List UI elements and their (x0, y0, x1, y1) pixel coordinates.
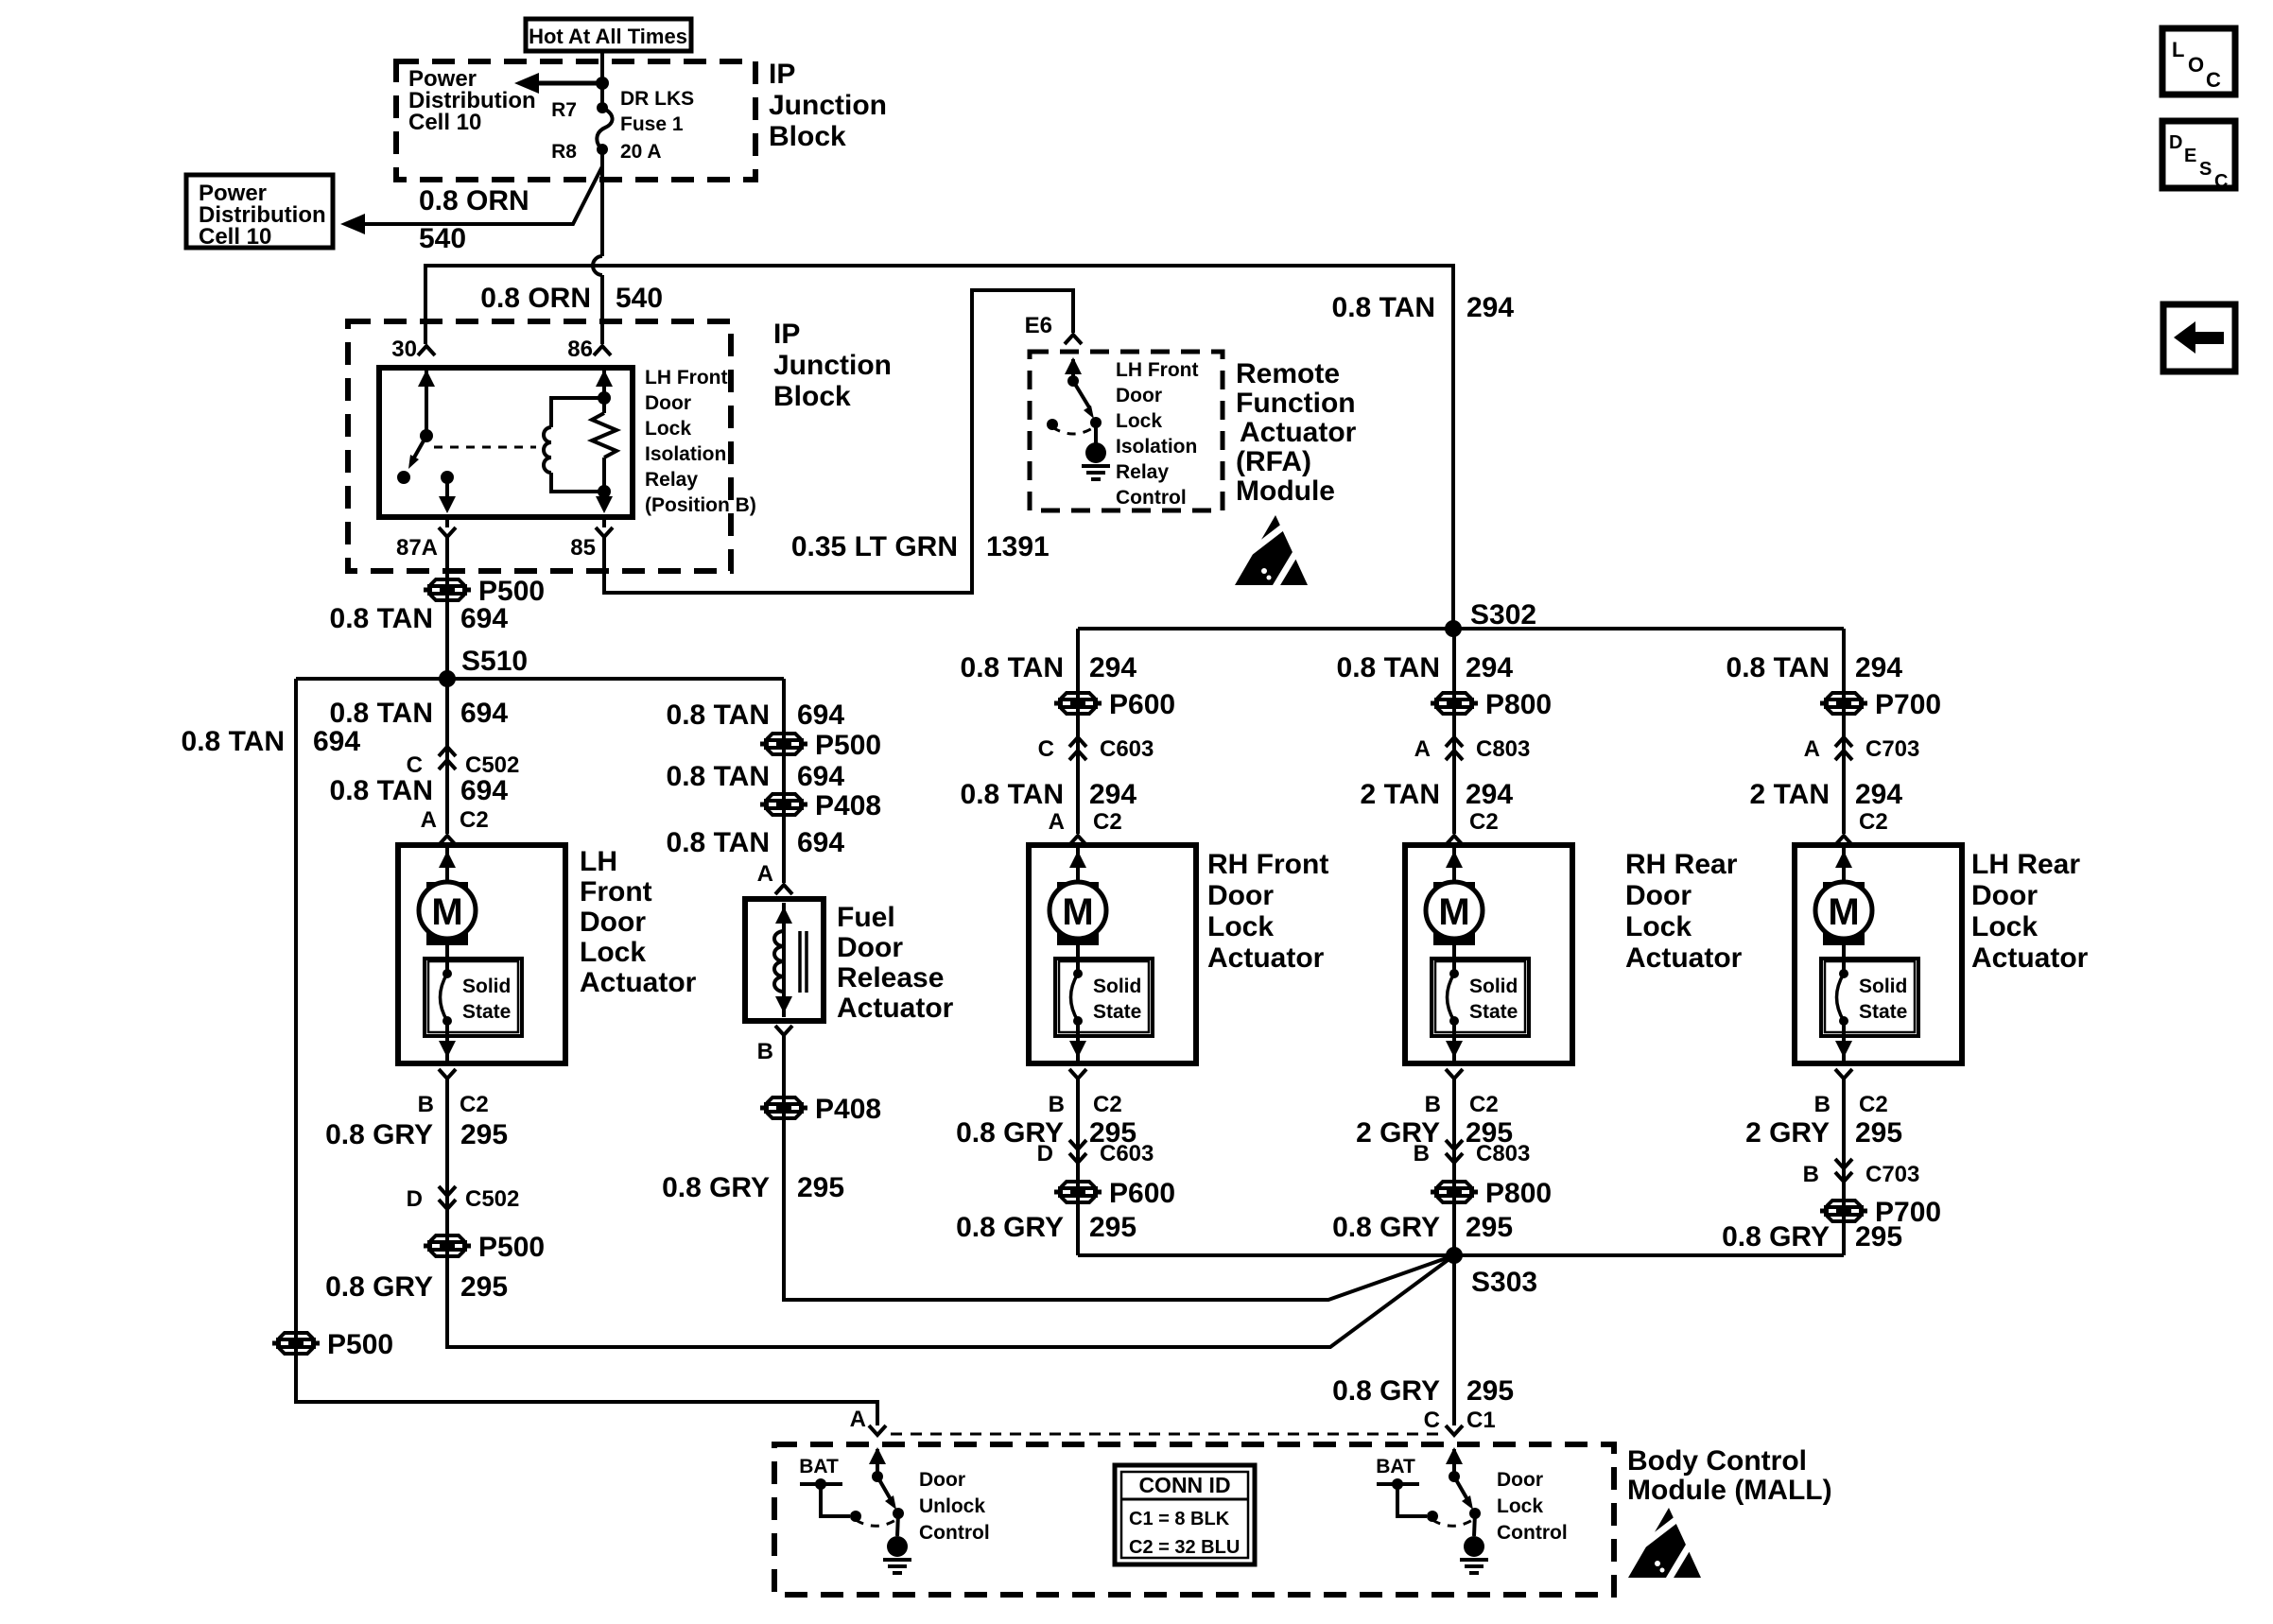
svg-text:P500: P500 (327, 1329, 393, 1360)
connector P700 (return) (1820, 1198, 1867, 1224)
svg-text:BAT: BAT (799, 1456, 839, 1477)
svg-text:Door: Door (1207, 880, 1274, 911)
svg-text:DR LKS: DR LKS (620, 88, 694, 110)
wire RH front return (1076, 1079, 1080, 1255)
relay switch blade (414, 436, 426, 458)
svg-text:C2: C2 (1859, 809, 1888, 835)
svg-text:D: D (407, 1186, 423, 1212)
svg-text:294: 294 (1466, 652, 1513, 683)
svg-text:S303: S303 (1471, 1267, 1537, 1298)
svg-text:Relay: Relay (645, 469, 698, 491)
svg-text:2 TAN: 2 TAN (1750, 779, 1830, 810)
svg-text:Actuator: Actuator (837, 993, 954, 1024)
svg-text:S302: S302 (1470, 599, 1536, 631)
wire relay 87A to S510 (445, 537, 449, 679)
RFA relay control switch (1071, 359, 1075, 381)
svg-text:LH Front: LH Front (645, 367, 727, 389)
svg-text:C502: C502 (465, 752, 519, 778)
connector C803 pin A (1446, 737, 1463, 760)
svg-text:R7: R7 (551, 99, 577, 121)
svg-text:Actuator: Actuator (1625, 942, 1743, 974)
svg-text:LH Front: LH Front (1116, 359, 1198, 381)
connector C703 pin A (1835, 737, 1852, 760)
connector P500 (BCM feed) (272, 1330, 320, 1356)
svg-text:0.8 TAN: 0.8 TAN (667, 761, 770, 792)
svg-text:Fuse 1: Fuse 1 (620, 113, 684, 135)
node S510 (439, 670, 456, 687)
svg-text:Block: Block (769, 121, 846, 152)
relay switch output contact (441, 471, 454, 484)
svg-text:Cell 10: Cell 10 (199, 224, 271, 250)
LH Rear Door Lock Actuator (1795, 845, 1962, 1063)
svg-text:Release: Release (837, 962, 944, 993)
svg-text:Junction: Junction (773, 350, 892, 381)
connector C502 pin D (439, 1186, 456, 1209)
svg-text:C: C (1038, 736, 1054, 762)
wire from Hot At All Times to fuse (600, 51, 604, 108)
svg-text:694: 694 (797, 700, 844, 731)
connector P500 (fuel feed) (760, 731, 807, 757)
wire 0.35 LT GRN 1391 from pin 85 to RFA E6 (604, 290, 1073, 593)
svg-text:C1 = 8 BLK: C1 = 8 BLK (1129, 1509, 1230, 1529)
node S303 (1446, 1247, 1463, 1264)
svg-text:C2: C2 (1859, 1092, 1888, 1117)
svg-text:295: 295 (1466, 1375, 1514, 1407)
svg-text:0.8 TAN: 0.8 TAN (330, 603, 433, 634)
pin B connector C2 (439, 1069, 456, 1079)
svg-text:B: B (1414, 1141, 1430, 1166)
wire RH rear return to S303 (1452, 1079, 1456, 1255)
svg-text:Control: Control (919, 1522, 990, 1544)
wire fuse output down to relay pin 86 (600, 149, 604, 256)
ESD symbol (RFA) (1235, 515, 1308, 590)
LOC legend box (2162, 28, 2235, 95)
svg-text:P500: P500 (815, 730, 881, 761)
connector P600 (feed) (1054, 690, 1102, 717)
svg-text:Fuel: Fuel (837, 902, 895, 933)
svg-text:O: O (2188, 53, 2204, 77)
svg-text:Actuator: Actuator (1207, 942, 1325, 974)
svg-text:C2: C2 (1469, 1092, 1499, 1117)
svg-text:87A: 87A (396, 535, 438, 561)
svg-text:294: 294 (1466, 292, 1514, 323)
connector P600 (return) (1054, 1179, 1102, 1205)
svg-text:694: 694 (460, 698, 508, 729)
svg-text:Module: Module (1236, 475, 1335, 507)
svg-text:RH Rear: RH Rear (1625, 849, 1738, 880)
svg-text:A: A (757, 861, 773, 887)
connector P500 (return) (424, 1233, 471, 1259)
dashed link blade to coil (434, 446, 536, 449)
svg-text:295: 295 (460, 1119, 508, 1150)
svg-text:C2: C2 (1093, 809, 1122, 835)
wire LH rear return to S303 (1842, 1079, 1846, 1255)
svg-text:Door: Door (1497, 1469, 1543, 1491)
connector P800 (feed) (1431, 690, 1478, 717)
svg-text:295: 295 (797, 1172, 844, 1203)
svg-text:C: C (407, 752, 423, 778)
svg-text:(RFA): (RFA) (1236, 446, 1311, 477)
svg-text:P800: P800 (1485, 1178, 1552, 1209)
svg-text:B: B (1803, 1162, 1819, 1187)
svg-text:Hot At All Times: Hot At All Times (529, 25, 687, 48)
svg-text:0.8 ORN: 0.8 ORN (419, 185, 529, 216)
ground (RFA switch) (1094, 423, 1098, 444)
Door Lock Control switch (1452, 1449, 1456, 1477)
Body Control Module (MALL) dashed box (774, 1444, 1614, 1595)
RH Front Door Lock Actuator (1029, 845, 1196, 1063)
svg-text:694: 694 (797, 761, 844, 792)
back arrow legend box (2163, 304, 2235, 371)
relay switch common (pin 30 side) (425, 368, 428, 436)
svg-text:P500: P500 (478, 1232, 545, 1263)
svg-text:0.8 GRY: 0.8 GRY (956, 1212, 1064, 1243)
svg-text:Control: Control (1497, 1522, 1568, 1544)
svg-text:P408: P408 (815, 790, 881, 821)
svg-text:Remote: Remote (1236, 358, 1340, 389)
svg-text:Control: Control (1116, 487, 1187, 509)
connector C502 pin C (439, 747, 456, 769)
svg-text:Junction: Junction (769, 90, 887, 121)
RH rear door lock feed wire (1452, 629, 1456, 834)
svg-text:Isolation: Isolation (1116, 436, 1197, 458)
svg-text:Actuator: Actuator (1240, 417, 1357, 448)
relay resistor (602, 368, 606, 413)
svg-text:A: A (1414, 736, 1431, 762)
LH front door lock feed wire (445, 679, 449, 834)
svg-text:A: A (850, 1407, 866, 1432)
svg-text:C: C (1424, 1408, 1440, 1433)
svg-text:Door: Door (1971, 880, 2038, 911)
relay coil branch (551, 398, 604, 427)
pin B connector C2 (1835, 1069, 1852, 1079)
svg-text:295: 295 (1855, 1117, 1902, 1149)
svg-text:C2: C2 (460, 1092, 489, 1117)
connector C703 pin B (1835, 1159, 1852, 1182)
svg-text:0.8 ORN: 0.8 ORN (480, 283, 591, 314)
svg-text:C: C (2206, 68, 2221, 92)
svg-text:0.8 TAN: 0.8 TAN (182, 726, 285, 757)
svg-text:B: B (1049, 1092, 1065, 1117)
wire S510 distribution (296, 677, 784, 681)
wire S510 to BCM pin A (296, 679, 877, 1425)
svg-text:0.8 GRY: 0.8 GRY (1332, 1212, 1440, 1243)
svg-text:LH: LH (580, 846, 617, 877)
svg-text:E: E (2184, 146, 2196, 166)
wire S303 bus (1078, 1253, 1844, 1257)
connector P500 (87A run) (424, 577, 471, 603)
wire S303 to BCM pin C (1452, 1255, 1456, 1425)
svg-text:0.8 TAN: 0.8 TAN (1332, 292, 1435, 323)
connector C603 pin C (1069, 737, 1086, 760)
svg-text:IP: IP (773, 319, 800, 350)
pin B connector C2 (1446, 1069, 1463, 1079)
svg-text:C703: C703 (1865, 1162, 1919, 1187)
svg-text:B: B (1425, 1092, 1441, 1117)
svg-text:RH Front: RH Front (1207, 849, 1328, 880)
svg-text:A: A (1049, 809, 1065, 835)
svg-text:B: B (1814, 1092, 1831, 1117)
CONN ID table (1115, 1465, 1255, 1564)
svg-text:C2: C2 (1469, 809, 1499, 835)
wire branch to Power Distribution Cell 10 (left arrow) (357, 166, 602, 224)
svg-text:Isolation: Isolation (645, 443, 726, 465)
svg-text:540: 540 (616, 283, 663, 314)
RH Rear Door Lock Actuator (1405, 845, 1572, 1063)
wire arrow to Power Distribution Cell 10 (internal) (532, 81, 602, 86)
svg-text:Lock: Lock (1971, 911, 2038, 942)
connector P800 (return) (1431, 1179, 1478, 1205)
svg-text:0.8 TAN: 0.8 TAN (667, 700, 770, 731)
svg-text:P408: P408 (815, 1094, 881, 1125)
svg-text:0.8 TAN: 0.8 TAN (667, 827, 770, 858)
svg-text:C803: C803 (1476, 736, 1530, 762)
RH front door lock feed wire (1076, 629, 1080, 834)
IP Junction Block (relay) dashed box (348, 321, 731, 571)
svg-text:Actuator: Actuator (580, 967, 697, 998)
svg-text:294: 294 (1855, 779, 1902, 810)
BCM boundary dashed line (891, 1433, 1439, 1436)
svg-text:P800: P800 (1485, 689, 1552, 720)
svg-text:294: 294 (1855, 652, 1902, 683)
ESD symbol (BCM) (1628, 1508, 1701, 1582)
svg-text:Door: Door (580, 907, 646, 938)
svg-text:C603: C603 (1100, 1141, 1154, 1166)
svg-text:295: 295 (1855, 1221, 1902, 1253)
svg-text:295: 295 (1089, 1212, 1136, 1243)
svg-text:Actuator: Actuator (1971, 942, 2089, 974)
svg-text:C703: C703 (1865, 736, 1919, 762)
svg-text:Cell 10: Cell 10 (408, 110, 481, 135)
connector C603 pin D (1069, 1140, 1086, 1163)
svg-text:294: 294 (1089, 779, 1136, 810)
svg-text:A: A (421, 807, 437, 833)
svg-text:295: 295 (1466, 1212, 1513, 1243)
svg-text:0.8 GRY: 0.8 GRY (1332, 1375, 1440, 1407)
svg-text:B: B (757, 1039, 773, 1064)
svg-text:Module (MALL): Module (MALL) (1627, 1475, 1832, 1506)
svg-text:0.8 TAN: 0.8 TAN (961, 652, 1064, 683)
svg-text:IP: IP (769, 59, 795, 90)
wire fuel door release return to S303 (784, 1035, 1454, 1300)
svg-text:E6: E6 (1025, 313, 1052, 338)
svg-text:540: 540 (419, 223, 466, 254)
wire S302 distribution (1078, 627, 1844, 631)
wire 0.8 TAN 294 feed (horizontal to S302 drop) (425, 266, 1453, 629)
node S302 (1445, 620, 1462, 637)
svg-text:Lock: Lock (1207, 911, 1274, 942)
svg-text:BAT: BAT (1376, 1456, 1415, 1477)
svg-text:Door: Door (1116, 385, 1162, 406)
svg-text:0.8 GRY: 0.8 GRY (325, 1119, 433, 1150)
svg-text:CONN ID: CONN ID (1138, 1473, 1230, 1497)
LH Front Door Lock Actuator (398, 845, 565, 1063)
svg-text:0.8 TAN: 0.8 TAN (330, 775, 433, 806)
svg-text:Block: Block (773, 381, 851, 412)
svg-text:L: L (2172, 38, 2184, 61)
svg-text:A: A (1804, 736, 1820, 762)
svg-text:Door: Door (919, 1469, 965, 1491)
svg-text:Door: Door (837, 932, 903, 963)
fuse DR LKS Fuse 1 20 A (597, 102, 608, 113)
IP Junction Block (fuse block) dashed box (396, 61, 755, 180)
svg-text:Lock: Lock (645, 418, 691, 440)
svg-text:Lock: Lock (1497, 1495, 1543, 1517)
svg-text:0.8 TAN: 0.8 TAN (1726, 652, 1830, 683)
DESC legend box (2162, 121, 2235, 188)
svg-text:0.8 TAN: 0.8 TAN (961, 779, 1064, 810)
svg-text:R8: R8 (551, 141, 577, 163)
svg-text:Door: Door (1625, 880, 1692, 911)
Fuel Door Release Actuator (745, 899, 824, 1021)
svg-text:P600: P600 (1109, 689, 1175, 720)
Fuel door release feed wire (782, 679, 786, 883)
svg-text:B: B (418, 1092, 434, 1117)
svg-text:30: 30 (391, 337, 417, 362)
connector P408 (fuel feed) (760, 791, 807, 818)
svg-text:P600: P600 (1109, 1178, 1175, 1209)
svg-text:295: 295 (460, 1271, 508, 1303)
svg-text:Front: Front (580, 876, 652, 907)
svg-text:S510: S510 (461, 646, 528, 677)
connector C803 pin B (1446, 1140, 1463, 1163)
svg-text:0.35 LT GRN: 0.35 LT GRN (791, 531, 958, 562)
svg-text:694: 694 (460, 775, 508, 806)
svg-text:Body Control: Body Control (1627, 1445, 1807, 1477)
relay LH Front Door Lock Isolation Relay (Position B) (379, 368, 633, 517)
svg-text:C2 = 32 BLU: C2 = 32 BLU (1129, 1537, 1240, 1558)
svg-text:Lock: Lock (1625, 911, 1692, 942)
svg-text:2 TAN: 2 TAN (1361, 779, 1440, 810)
LH rear door lock feed wire (1842, 629, 1846, 834)
svg-text:C2: C2 (1093, 1092, 1122, 1117)
svg-text:C603: C603 (1100, 736, 1154, 762)
svg-text:1391: 1391 (986, 531, 1050, 562)
Hot At All Times box (526, 19, 691, 51)
svg-text:Unlock: Unlock (919, 1495, 985, 1517)
svg-text:Function: Function (1236, 388, 1356, 419)
svg-text:C502: C502 (465, 1186, 519, 1212)
svg-text:85: 85 (570, 535, 596, 561)
svg-text:C: C (2214, 171, 2228, 192)
connector P700 (feed) (1820, 690, 1867, 717)
svg-text:C1: C1 (1466, 1408, 1496, 1433)
connector P408 (return) (760, 1095, 807, 1121)
Remote Function Actuator (RFA) Module dashed box (1030, 352, 1223, 510)
svg-text:2 GRY: 2 GRY (1745, 1117, 1830, 1149)
svg-text:0.8 GRY: 0.8 GRY (1722, 1221, 1830, 1253)
Door Unlock Control switch (876, 1449, 879, 1477)
svg-text:C803: C803 (1476, 1141, 1530, 1166)
svg-text:LH Rear: LH Rear (1971, 849, 2080, 880)
svg-text:(Position B): (Position B) (645, 494, 756, 516)
svg-text:Lock: Lock (580, 937, 646, 968)
svg-text:P700: P700 (1875, 689, 1941, 720)
svg-text:Lock: Lock (1116, 410, 1162, 432)
svg-text:S: S (2199, 159, 2212, 180)
svg-text:694: 694 (797, 827, 844, 858)
svg-text:0.8 TAN: 0.8 TAN (330, 698, 433, 729)
svg-text:Door: Door (645, 392, 691, 414)
svg-text:0.8 GRY: 0.8 GRY (325, 1271, 433, 1303)
svg-text:0.8 TAN: 0.8 TAN (1337, 652, 1440, 683)
svg-text:20 A: 20 A (620, 141, 662, 163)
svg-text:294: 294 (1466, 779, 1513, 810)
svg-text:C2: C2 (460, 807, 489, 833)
svg-text:294: 294 (1089, 652, 1136, 683)
wire LH front door lock return to S303 (447, 1079, 1454, 1347)
node (junction dot above fuse) (596, 77, 609, 90)
svg-text:0.8 GRY: 0.8 GRY (662, 1172, 770, 1203)
pin B (775, 1026, 792, 1035)
svg-text:694: 694 (313, 726, 360, 757)
svg-text:D: D (2169, 132, 2182, 153)
Power Distribution Cell 10 box (186, 175, 333, 248)
svg-text:86: 86 (567, 337, 593, 362)
pin B connector C2 (1069, 1069, 1086, 1079)
svg-text:D: D (1037, 1141, 1053, 1166)
svg-text:694: 694 (460, 603, 508, 634)
svg-text:Relay: Relay (1116, 461, 1169, 483)
